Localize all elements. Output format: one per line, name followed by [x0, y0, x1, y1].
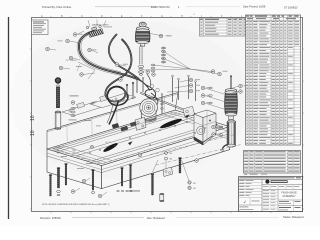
leader line — [205, 96, 224, 102]
rails on top face — [57, 113, 178, 150]
leader line — [102, 192, 107, 196]
leader line — [215, 127, 227, 131]
back wall — [47, 93, 178, 131]
callout balloon — [80, 73, 84, 77]
diagonal mounting rail — [140, 92, 203, 117]
washer pair w labels — [188, 181, 191, 184]
frame tick — [190, 16, 192, 18]
frame tick — [30, 176, 32, 178]
stud T2 — [188, 77, 190, 99]
callout balloon — [189, 84, 193, 88]
terminal circles on wall — [150, 84, 154, 88]
callout balloon — [98, 194, 102, 198]
hose H1 thin tail — [138, 80, 148, 88]
isolator A cap dome — [139, 22, 146, 27]
harness coil — [105, 77, 125, 102]
mini grid left of title — [277, 190, 279, 212]
leader line — [162, 58, 191, 69]
hose end fittings — [92, 27, 97, 31]
small bolts mid wall — [126, 86, 128, 98]
hose H3 outer — [122, 39, 132, 77]
hose H1 outer — [79, 31, 138, 80]
hanging bolt — [129, 164, 132, 166]
callout balloon — [211, 70, 215, 74]
washer pair mid-right — [165, 152, 168, 155]
note box — [32, 20, 49, 35]
hatch ticks near west corner — [50, 148, 56, 151]
leader line — [83, 73, 95, 75]
leader line — [86, 178, 90, 181]
title block — [239, 177, 303, 212]
leader line — [165, 160, 167, 168]
callout balloon — [189, 89, 193, 93]
washer stack column — [161, 47, 165, 49]
isolator A neck — [141, 44, 145, 47]
misc micro labels — [104, 26, 112, 29]
frame tick — [30, 208, 32, 210]
bracket edges near hose — [78, 62, 95, 70]
housing box at right end — [194, 110, 216, 118]
callout balloon — [201, 94, 205, 98]
isolator B collar — [229, 116, 234, 120]
callout balloon — [201, 86, 205, 90]
stud S3 long — [172, 77, 174, 102]
bolt C head — [55, 78, 61, 84]
connector blocks on plate — [112, 123, 119, 128]
centerline 2 — [156, 145, 241, 166]
isolator A base — [137, 41, 149, 44]
stud S2 — [142, 79, 144, 93]
callout balloon — [152, 73, 156, 77]
leader line — [91, 50, 98, 53]
centerline 1 — [150, 135, 235, 156]
washer stack left — [71, 108, 75, 110]
left column grid — [261, 179, 263, 211]
footer rule right — [176, 217, 279, 219]
angle block — [163, 167, 173, 177]
motor body — [141, 110, 156, 123]
callout balloon — [46, 47, 50, 51]
frame tick — [170, 16, 172, 18]
harness coil second loop — [107, 93, 128, 106]
svg-text:ELECTROFINI: ELECTROFINI — [151, 5, 170, 9]
leader line — [215, 135, 227, 139]
callout balloon — [138, 153, 142, 157]
rim tick texture along front edges — [54, 149, 59, 151]
arrowhead on plate — [128, 141, 133, 145]
frame tick — [290, 16, 292, 18]
stud S1 — [136, 80, 138, 94]
wellington logo dot — [266, 180, 270, 184]
washer stack under rod — [138, 65, 144, 67]
wellington wordmark — [271, 180, 288, 183]
leader line — [167, 91, 189, 92]
stud T1 — [161, 95, 163, 114]
bolt C standoff — [55, 112, 61, 129]
parts list table — [246, 15, 301, 145]
terminal plate 1 — [62, 102, 108, 116]
leader line — [49, 49, 56, 50]
svg-text:ST 16/08/25: ST 16/08/25 — [284, 6, 298, 9]
footer rule left — [72, 217, 144, 219]
washers under bolt — [57, 191, 61, 193]
stud S4 long — [178, 80, 180, 100]
balloon text smudge — [167, 35, 172, 38]
isolator B top rings — [225, 89, 237, 93]
harness drop to plate — [109, 101, 119, 125]
small cells band — [262, 189, 303, 191]
leader line — [73, 58, 80, 60]
scanned page left edge shadow — [8, 17, 10, 219]
callout balloon — [73, 33, 77, 37]
frame tick — [130, 16, 132, 18]
frame tick — [110, 16, 112, 18]
frame tick — [270, 16, 272, 18]
terminal blocks — [77, 102, 85, 108]
leader line — [175, 86, 190, 89]
frame tick — [30, 112, 32, 114]
base plate inner rim — [53, 112, 223, 164]
stud rod — [139, 47, 141, 65]
base plate side faces — [47, 149, 102, 189]
hanging bolt — [49, 174, 52, 176]
micro tags near balloons — [78, 33, 83, 36]
callout balloon — [146, 70, 150, 74]
callout balloon — [71, 190, 75, 194]
callout balloon — [189, 78, 193, 82]
hanging bolt — [65, 163, 68, 165]
callout balloon — [218, 72, 222, 76]
logo band rule — [262, 184, 303, 186]
leader line — [119, 65, 126, 67]
leader line — [153, 160, 159, 172]
isolator B rod — [230, 77, 232, 90]
hanging bolt — [121, 167, 124, 169]
leaf blade 1 — [103, 142, 119, 153]
callout balloon — [115, 63, 119, 67]
callout balloon — [195, 159, 199, 163]
leader line — [77, 31, 84, 35]
isolator B base ring — [225, 113, 237, 116]
hose H2 thin tail — [139, 79, 150, 91]
fitting leader lines up — [88, 20, 90, 27]
leader line — [182, 160, 190, 181]
hose H3 highlight — [122, 39, 132, 77]
motor base shading — [141, 118, 156, 120]
callout balloon — [90, 145, 93, 148]
hanging bolt — [151, 173, 154, 175]
leaf blade 2 — [160, 117, 183, 129]
leader line — [233, 92, 239, 94]
damper body — [227, 122, 236, 146]
frame tick — [210, 16, 212, 18]
frame tick — [230, 16, 232, 18]
leader line — [75, 188, 80, 192]
frame tick — [150, 16, 152, 18]
isolator A neck rings — [136, 27, 149, 31]
leader line — [233, 86, 239, 88]
leader line — [69, 41, 80, 43]
frame tick — [30, 48, 32, 50]
header rule right — [186, 6, 240, 8]
arrowhead 2 — [185, 114, 190, 118]
leader line — [148, 33, 163, 36]
callout balloon — [201, 101, 205, 105]
callout balloon — [239, 90, 243, 94]
bearing block — [183, 106, 195, 117]
callout balloon — [59, 66, 63, 70]
hose H1 highlight — [79, 31, 138, 80]
small detail dots on plate — [99, 149, 101, 151]
hanging bolt — [92, 169, 95, 171]
leader line — [162, 50, 191, 69]
callout balloon — [119, 78, 123, 82]
hanging bolt — [179, 157, 182, 159]
frame tick — [90, 16, 92, 18]
revision table — [244, 151, 301, 174]
isolator A ribbed body — [135, 32, 150, 42]
leader line — [190, 69, 218, 74]
bolt C washer — [56, 85, 60, 87]
frame tick — [30, 80, 32, 82]
callout balloon — [159, 34, 163, 38]
motor pulley — [140, 99, 158, 117]
leader line — [205, 103, 224, 109]
leader line — [153, 65, 190, 69]
small dark dots near housing — [209, 120, 210, 121]
callout balloon — [212, 133, 216, 137]
leader line — [180, 80, 190, 82]
motor bracket — [135, 117, 146, 130]
sparse row below revision table — [244, 173, 247, 176]
callout balloon — [88, 48, 92, 52]
frame tick — [50, 16, 52, 18]
hatched connector — [89, 29, 104, 38]
callout balloon — [239, 84, 243, 88]
hose H2 outer — [109, 34, 139, 79]
frame tick — [250, 16, 252, 18]
bolt C threaded shaft — [56, 87, 59, 107]
base plate top face — [47, 110, 230, 166]
washer stack lower — [151, 64, 155, 66]
leader line — [63, 68, 70, 69]
stud T3 — [195, 83, 197, 102]
plate skirt lines — [47, 153, 102, 170]
damper dome — [227, 120, 236, 124]
damper foot — [222, 145, 227, 150]
leader line — [190, 69, 212, 72]
callout balloon — [212, 125, 216, 129]
frame tick — [70, 16, 72, 18]
washer row — [117, 190, 120, 192]
tolerance note band — [239, 178, 303, 180]
leader line — [205, 88, 224, 94]
cable tangle at plate — [145, 85, 156, 99]
housing face circle — [197, 126, 205, 134]
face circles — [57, 151, 59, 153]
scan tone veil — [32, 18, 303, 212]
isolator B ribbed body — [225, 94, 238, 113]
harness coil highlight — [105, 77, 125, 102]
header rule left — [95, 6, 157, 8]
callout balloon — [71, 101, 75, 105]
H1 braid accents — [81, 33, 121, 73]
flat pattern table — [200, 18, 248, 36]
small cylinder — [160, 194, 164, 201]
frame tick — [30, 144, 32, 146]
hanging bolt — [57, 167, 60, 169]
hose H2 highlight — [109, 34, 139, 79]
callout balloon — [66, 39, 70, 43]
leader line — [143, 69, 190, 70]
callout balloon — [69, 56, 73, 60]
drawing sheet frame — [32, 18, 303, 212]
housing detail lines — [194, 122, 203, 126]
callout balloon — [82, 179, 86, 183]
approval check area — [239, 204, 263, 206]
bottom right rows — [278, 199, 303, 201]
micro labels left-mid — [70, 95, 79, 98]
housing base dark band — [194, 137, 203, 145]
svg-text:Printed By: Files Online: Printed By: Files Online — [42, 5, 72, 9]
terminal plate 2 — [90, 94, 136, 108]
